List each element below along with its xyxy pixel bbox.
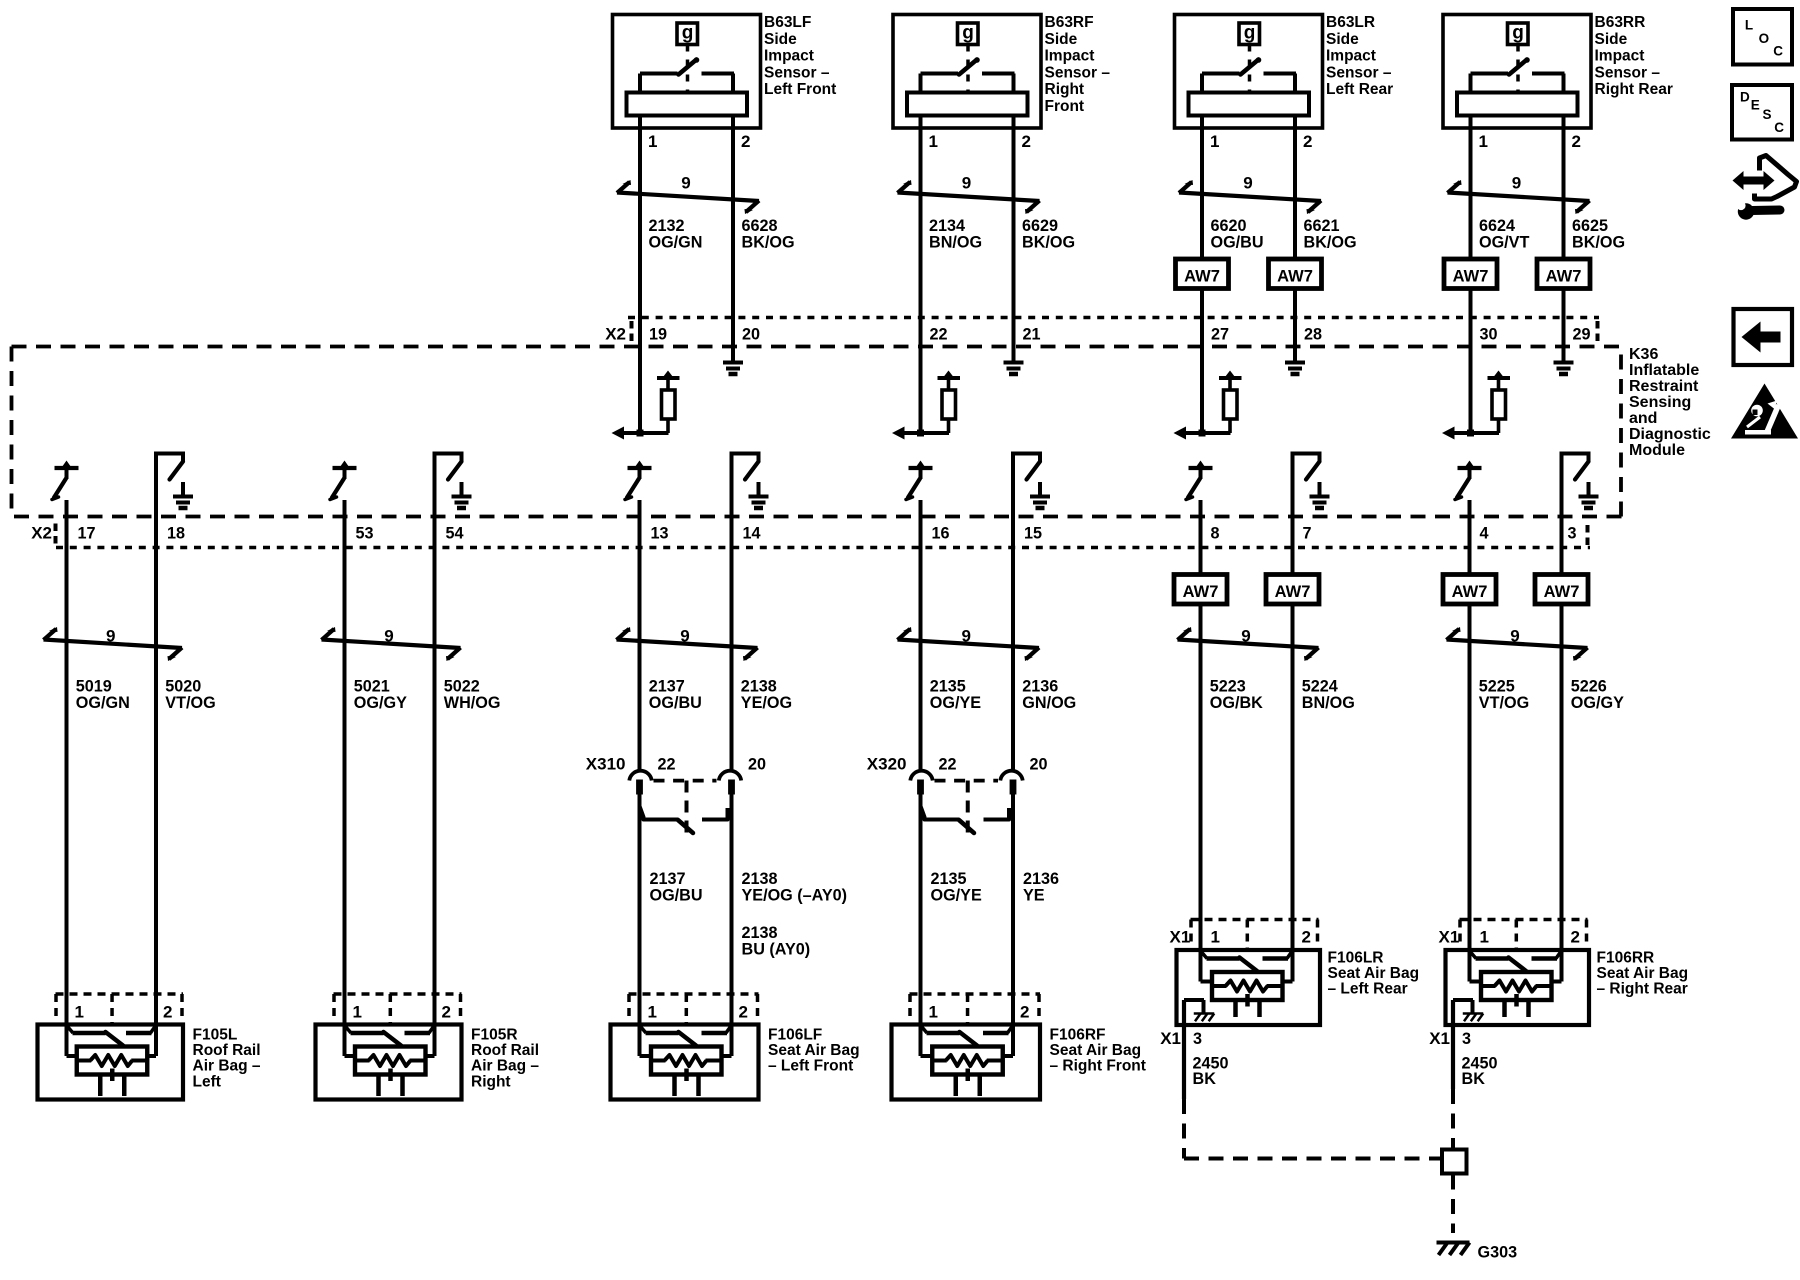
svg-text:2137: 2137 [650,870,686,888]
svg-text:YE: YE [1023,887,1045,905]
svg-text:G303: G303 [1478,1244,1518,1262]
svg-text:3: 3 [1568,525,1577,543]
svg-text:9: 9 [1512,174,1521,193]
svg-text:2132: 2132 [649,217,685,235]
svg-text:F106LF: F106LF [768,1027,822,1044]
svg-text:– Right Front: – Right Front [1050,1058,1146,1075]
svg-text:and: and [1629,410,1657,427]
svg-text:13: 13 [651,525,669,543]
svg-text:S: S [1763,107,1772,122]
svg-text:6625: 6625 [1572,217,1608,235]
svg-text:18: 18 [167,525,185,543]
svg-text:17: 17 [78,525,96,543]
svg-text:X1: X1 [1160,1029,1181,1048]
svg-text:BK/OG: BK/OG [1304,234,1357,252]
svg-text:Seat Air Bag: Seat Air Bag [768,1042,860,1059]
svg-text:3: 3 [1462,1030,1471,1048]
svg-text:X320: X320 [867,755,907,774]
svg-text:9: 9 [962,627,971,646]
svg-text:1: 1 [1480,928,1489,947]
svg-text:AW7: AW7 [1544,583,1580,601]
svg-text:2138: 2138 [742,924,778,942]
svg-text:OG/BU: OG/BU [1211,234,1264,252]
svg-text:GN/OG: GN/OG [1022,694,1076,712]
svg-text:20: 20 [748,756,766,774]
svg-text:AW7: AW7 [1184,267,1220,285]
svg-text:16: 16 [932,525,950,543]
svg-text:14: 14 [743,525,761,543]
svg-text:53: 53 [356,525,374,543]
svg-text:2134: 2134 [929,217,965,235]
svg-text:19: 19 [649,326,667,344]
svg-text:AW7: AW7 [1183,583,1219,601]
svg-text:2135: 2135 [931,870,967,888]
svg-text:OG/YE: OG/YE [931,887,982,905]
svg-text:AW7: AW7 [1277,267,1313,285]
svg-text:Sensor –: Sensor – [1595,64,1661,81]
svg-text:9: 9 [106,627,115,646]
svg-text:30: 30 [1480,326,1498,344]
svg-text:2: 2 [741,132,750,151]
svg-text:Sensor –: Sensor – [1326,64,1392,81]
svg-text:5223: 5223 [1210,678,1246,696]
svg-text:29: 29 [1573,326,1591,344]
svg-text:2138: 2138 [741,678,777,696]
svg-text:Right: Right [1045,81,1085,98]
svg-text:54: 54 [446,525,464,543]
svg-text:B63LR: B63LR [1326,14,1375,31]
svg-text:OG/BK: OG/BK [1210,694,1263,712]
svg-text:5226: 5226 [1571,678,1607,696]
svg-text:OG/VT: OG/VT [1479,234,1529,252]
svg-text:4: 4 [1480,525,1489,543]
svg-text:C: C [1773,44,1783,59]
svg-text:1: 1 [648,1003,657,1022]
svg-text:2: 2 [1022,132,1031,151]
svg-text:1: 1 [1210,132,1219,151]
svg-text:Sensor –: Sensor – [764,64,830,81]
svg-text:VT/OG: VT/OG [165,694,215,712]
svg-text:E: E [1751,97,1760,112]
svg-text:OG/BU: OG/BU [650,887,703,905]
svg-text:Impact: Impact [1045,48,1095,65]
svg-text:2138: 2138 [742,870,778,888]
svg-text:F105R: F105R [471,1027,518,1044]
svg-text:g: g [1512,23,1524,44]
svg-text:– Right Rear: – Right Rear [1597,981,1688,998]
svg-text:X1: X1 [1429,1029,1450,1048]
svg-text:6629: 6629 [1022,217,1058,235]
svg-text:1: 1 [929,132,938,151]
svg-text:– Left Front: – Left Front [768,1058,853,1075]
svg-text:7: 7 [1303,525,1312,543]
svg-text:Side: Side [764,31,797,48]
svg-text:5022: 5022 [444,678,480,696]
svg-text:Restraint: Restraint [1629,378,1699,395]
svg-text:Air Bag –: Air Bag – [193,1058,261,1075]
svg-text:OG/GN: OG/GN [76,694,130,712]
svg-text:Module: Module [1629,442,1685,459]
svg-text:Side: Side [1595,31,1628,48]
svg-text:15: 15 [1024,525,1042,543]
svg-text:2: 2 [1572,132,1581,151]
svg-text:YE/OG (–AY0): YE/OG (–AY0) [742,887,848,905]
svg-text:Sensor –: Sensor – [1045,64,1111,81]
svg-text:Sensing: Sensing [1629,394,1691,411]
svg-text:K36: K36 [1629,346,1658,363]
svg-text:Seat Air Bag: Seat Air Bag [1050,1042,1142,1059]
svg-text:27: 27 [1211,326,1229,344]
svg-text:5019: 5019 [76,678,112,696]
svg-text:Roof Rail: Roof Rail [471,1042,539,1059]
svg-text:Roof Rail: Roof Rail [193,1042,261,1059]
svg-text:g: g [1244,23,1256,44]
svg-text:AW7: AW7 [1275,583,1311,601]
svg-text:5224: 5224 [1302,678,1338,696]
svg-text:Left Front: Left Front [764,81,836,98]
svg-text:2136: 2136 [1023,870,1059,888]
svg-text:1: 1 [1479,132,1488,151]
svg-text:OG/YE: OG/YE [930,694,981,712]
svg-text:Right: Right [471,1073,511,1090]
svg-text:Impact: Impact [1326,48,1376,65]
svg-text:20: 20 [742,326,760,344]
svg-text:1: 1 [1211,928,1220,947]
svg-text:Left Rear: Left Rear [1326,81,1393,98]
svg-text:Right Rear: Right Rear [1595,81,1673,98]
svg-text:2: 2 [1571,928,1580,947]
svg-text:6621: 6621 [1304,217,1340,235]
svg-text:20: 20 [1030,756,1048,774]
svg-text:BK: BK [1462,1070,1486,1088]
svg-text:22: 22 [658,756,676,774]
svg-text:2135: 2135 [930,678,966,696]
svg-text:F106LR: F106LR [1328,950,1384,967]
svg-text:X1: X1 [1439,928,1460,947]
svg-text:– Left Rear: – Left Rear [1328,981,1408,998]
svg-text:OG/GY: OG/GY [354,694,407,712]
svg-text:B63RR: B63RR [1595,14,1646,31]
svg-text:Seat Air Bag: Seat Air Bag [1328,965,1420,982]
svg-text:BN/OG: BN/OG [929,234,982,252]
svg-text:F106RR: F106RR [1597,950,1655,967]
svg-text:2: 2 [1020,1003,1029,1022]
svg-text:X1: X1 [1170,928,1191,947]
svg-text:BN/OG: BN/OG [1302,694,1355,712]
svg-text:6628: 6628 [742,217,778,235]
svg-text:L: L [1745,18,1753,33]
svg-text:VT/OG: VT/OG [1479,694,1529,712]
svg-text:6620: 6620 [1211,217,1247,235]
svg-text:AW7: AW7 [1452,583,1488,601]
svg-text:9: 9 [1241,627,1250,646]
svg-text:2: 2 [739,1003,748,1022]
svg-text:9: 9 [680,627,689,646]
svg-text:1: 1 [929,1003,938,1022]
svg-text:AW7: AW7 [1546,267,1582,285]
svg-text:5020: 5020 [165,678,201,696]
svg-text:9: 9 [384,627,393,646]
svg-text:g: g [962,23,974,44]
svg-text:Left: Left [193,1073,221,1090]
svg-text:1: 1 [75,1003,84,1022]
svg-text:AW7: AW7 [1453,267,1489,285]
svg-text:2137: 2137 [649,678,685,696]
svg-text:5225: 5225 [1479,678,1515,696]
svg-text:Seat Air Bag: Seat Air Bag [1597,965,1689,982]
svg-text:WH/OG: WH/OG [444,694,501,712]
svg-text:X2: X2 [31,524,52,543]
svg-text:Front: Front [1045,98,1085,115]
svg-text:28: 28 [1304,326,1322,344]
svg-text:2: 2 [442,1003,451,1022]
svg-text:2: 2 [1303,132,1312,151]
svg-text:OG/BU: OG/BU [649,694,702,712]
svg-text:D: D [1740,90,1750,105]
svg-text:Impact: Impact [764,48,814,65]
svg-text:F105L: F105L [193,1027,238,1044]
svg-text:X310: X310 [586,755,626,774]
svg-text:Side: Side [1045,31,1078,48]
svg-text:Air Bag –: Air Bag – [471,1058,539,1075]
svg-text:22: 22 [939,756,957,774]
svg-text:1: 1 [353,1003,362,1022]
svg-text:BK/OG: BK/OG [742,234,795,252]
svg-text:21: 21 [1023,326,1041,344]
svg-text:9: 9 [1510,627,1519,646]
svg-text:Side: Side [1326,31,1359,48]
svg-text:OG/GN: OG/GN [649,234,703,252]
svg-text:9: 9 [1243,174,1252,193]
svg-text:C: C [1774,120,1784,135]
svg-text:X2: X2 [605,325,626,344]
svg-text:OG/GY: OG/GY [1571,694,1624,712]
svg-text:BK: BK [1193,1070,1217,1088]
svg-text:BK/OG: BK/OG [1022,234,1075,252]
svg-text:6624: 6624 [1479,217,1515,235]
svg-text:2136: 2136 [1022,678,1058,696]
svg-text:2: 2 [163,1003,172,1022]
svg-text:O: O [1759,31,1770,46]
svg-text:5021: 5021 [354,678,390,696]
svg-text:3: 3 [1193,1030,1202,1048]
svg-text:Impact: Impact [1595,48,1645,65]
svg-text:BK/OG: BK/OG [1572,234,1625,252]
svg-text:9: 9 [681,174,690,193]
svg-text:Inflatable: Inflatable [1629,362,1699,379]
svg-text:g: g [682,23,694,44]
svg-text:B63RF: B63RF [1045,14,1094,31]
svg-text:22: 22 [930,326,948,344]
svg-text:YE/OG: YE/OG [741,694,792,712]
svg-text:Diagnostic: Diagnostic [1629,426,1711,443]
svg-text:8: 8 [1211,525,1220,543]
svg-text:B63LF: B63LF [764,14,811,31]
svg-text:9: 9 [962,174,971,193]
svg-text:1: 1 [648,132,657,151]
svg-text:2: 2 [1302,928,1311,947]
svg-text:F106RF: F106RF [1050,1027,1106,1044]
svg-text:BU (AY0): BU (AY0) [742,941,811,959]
